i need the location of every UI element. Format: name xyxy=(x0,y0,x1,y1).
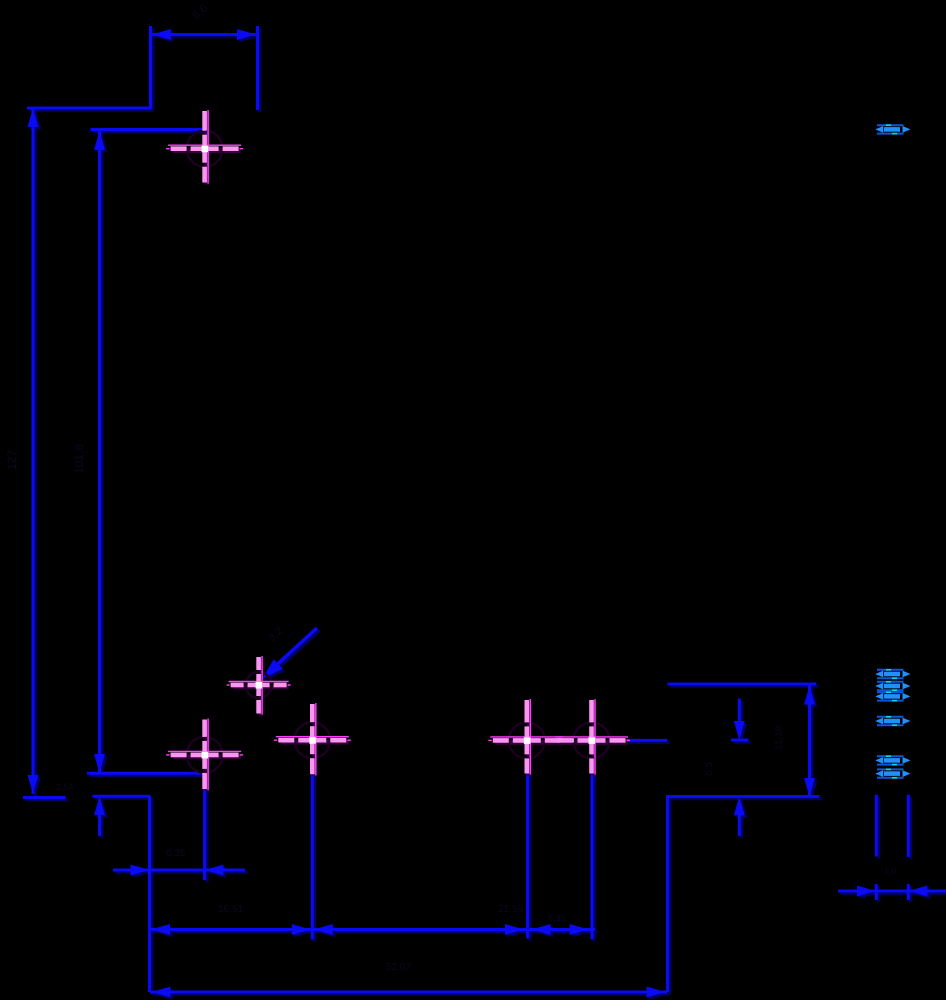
mini dimension mark row 4 xyxy=(875,717,910,725)
svg-text:21,59: 21,59 xyxy=(498,904,523,915)
drill target hole A xyxy=(166,719,243,792)
drill target hole E with leader xyxy=(227,656,291,716)
mini dimension mark row 6 xyxy=(875,769,910,777)
svg-text:5,5: 5,5 xyxy=(704,762,715,776)
svg-text:2,54: 2,54 xyxy=(56,782,74,792)
svg-text:52,07: 52,07 xyxy=(386,962,411,973)
svg-text:6,35: 6,35 xyxy=(548,913,566,923)
svg-text:6,35: 6,35 xyxy=(166,848,186,859)
mini dimension mark row 2 xyxy=(875,682,910,690)
drill target hole D xyxy=(553,699,630,776)
drill target hole T1 top xyxy=(166,110,243,185)
mini dimension mark row 1 xyxy=(875,670,910,678)
svg-text:11,18: 11,18 xyxy=(774,725,785,750)
mini dimension mark row 5 xyxy=(875,756,910,764)
magenta dashes between hole C and hole D xyxy=(547,739,574,742)
svg-text:101,6: 101,6 xyxy=(72,444,86,474)
svg-text:127: 127 xyxy=(5,450,19,470)
drill target hole B xyxy=(274,703,351,776)
mini dimension mark top right xyxy=(875,125,910,133)
drill target hole C xyxy=(488,699,565,776)
svg-text:1,0: 1,0 xyxy=(884,866,897,876)
svg-text:16,51: 16,51 xyxy=(218,904,243,915)
mini dimension mark row 3 xyxy=(875,692,910,700)
